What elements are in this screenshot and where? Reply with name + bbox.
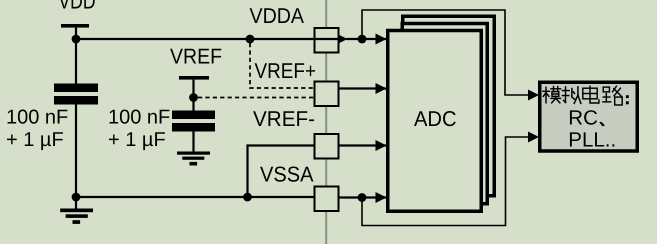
wire VDDA node to ADC (346, 38, 386, 40)
svg-text:ADC: ADC (414, 107, 457, 131)
svg-text:VDDA: VDDA (250, 4, 305, 28)
arrowhead into analog block lower (528, 132, 539, 143)
pin VREF- (315, 134, 339, 159)
ground symbol G2 (177, 132, 210, 166)
svg-text:VREF: VREF (170, 45, 222, 69)
wire VREF- pin to ground rail (248, 146, 315, 198)
arrowhead into analog block upper (528, 90, 539, 101)
svg-text:VREF-: VREF- (253, 107, 315, 131)
junction at C1 bottom (72, 193, 81, 202)
svg-text:VDD: VDD (59, 0, 96, 14)
chip boundary line (325, 0, 327, 244)
arrowhead into ADC pin VDDA (376, 34, 387, 45)
svg-text:100 nF: 100 nF (6, 107, 68, 129)
capacitor C1 (54, 84, 98, 105)
arrowhead into ADC pin VSSA (376, 192, 387, 203)
wire VSSA pin to ADC (339, 196, 387, 198)
svg-text:VREF+: VREF+ (255, 59, 317, 83)
wire VDDA rail to analog block (362, 10, 535, 95)
CJK comma after RC (599, 122, 605, 127)
ground rail wire (76, 196, 315, 198)
svg-text:RC: RC (568, 107, 598, 130)
ground symbol G1 (60, 197, 93, 224)
junction VDDA node (358, 35, 367, 44)
label C2 value (108, 107, 170, 152)
dashed wire VDDA to VREF+ pin (250, 43, 314, 88)
pin VREF+ (315, 82, 339, 107)
label analog block line1 (模拟电路:) (543, 86, 622, 105)
power rail VDD (61, 24, 89, 85)
wire C1 to ground rail (75, 105, 77, 198)
arrowhead into ADC pin VREF- (376, 140, 387, 151)
svg-text:+ 1 µF: + 1 µF (6, 129, 64, 151)
junction ground rail tap (243, 193, 252, 202)
svg-text:PLL..: PLL.. (568, 129, 616, 152)
junction VDDA dashed tap (246, 35, 255, 44)
arrowhead into ADC pin VREF+ (376, 83, 387, 94)
junction VREF (189, 93, 198, 102)
ADC middle layer (402, 24, 487, 204)
wire VSSA rail to analog block (362, 137, 535, 226)
arrowhead after pin VDDA (338, 35, 347, 44)
dashed wire VREF to VREF+ pin (198, 97, 314, 99)
svg-text:100 nF: 100 nF (108, 107, 170, 129)
svg-text:VSSA: VSSA (260, 163, 314, 187)
pin VSSA (315, 187, 339, 212)
wire through pin VDDA (315, 38, 338, 40)
label analog block colon (626, 95, 629, 104)
analog block (540, 82, 638, 151)
power rail VREF (179, 76, 209, 112)
wire VREF+ pin to ADC (339, 87, 387, 89)
label C1 value (6, 107, 68, 152)
ADC block U1 (388, 31, 482, 212)
junction at VDD (72, 35, 81, 44)
junction VSSA node (358, 193, 367, 202)
svg-text:+ 1 µF: + 1 µF (108, 129, 166, 151)
wire VREF- pin to ADC (339, 144, 387, 146)
pin VDDA (315, 28, 339, 53)
ADC back layer (403, 16, 495, 196)
wire VDD to VDDA pin (76, 38, 315, 40)
capacitor C2 (172, 111, 215, 132)
